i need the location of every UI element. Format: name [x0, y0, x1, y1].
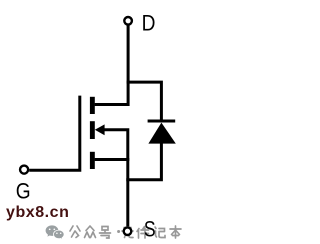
svg-text:G: G: [16, 179, 31, 204]
svg-text:ybx8.cn: ybx8.cn: [6, 204, 69, 221]
svg-text:S: S: [144, 218, 156, 242]
svg-text:D: D: [142, 11, 156, 36]
